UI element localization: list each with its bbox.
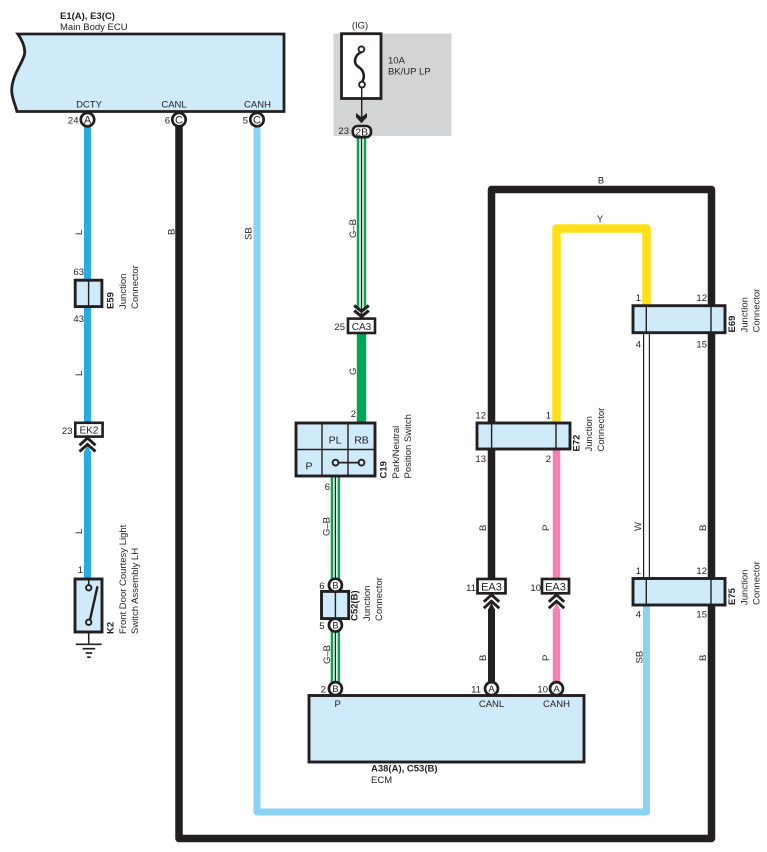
svg-text:CA3: CA3 xyxy=(352,322,372,333)
svg-text:2: 2 xyxy=(321,685,326,696)
svg-text:B: B xyxy=(332,684,338,695)
svg-text:12: 12 xyxy=(696,566,707,577)
svg-text:4: 4 xyxy=(636,340,641,351)
svg-text:B: B xyxy=(332,581,338,592)
svg-text:Connector: Connector xyxy=(752,561,763,605)
svg-text:6: 6 xyxy=(319,581,324,592)
svg-text:P: P xyxy=(305,461,312,473)
svg-text:Y: Y xyxy=(597,214,604,225)
svg-text:B: B xyxy=(332,621,338,632)
svg-text:SB: SB xyxy=(244,227,255,240)
svg-text:P: P xyxy=(541,655,552,661)
svg-text:(IG): (IG) xyxy=(352,21,368,32)
svg-text:6: 6 xyxy=(165,116,170,127)
svg-text:C19: C19 xyxy=(379,461,390,478)
svg-text:10: 10 xyxy=(530,583,541,594)
svg-text:W: W xyxy=(633,522,644,531)
svg-text:EA3: EA3 xyxy=(481,582,502,594)
svg-text:B: B xyxy=(698,655,709,661)
svg-text:L: L xyxy=(74,529,85,534)
svg-text:A: A xyxy=(553,684,560,695)
svg-text:13: 13 xyxy=(475,454,486,465)
svg-text:A: A xyxy=(488,684,495,695)
svg-text:CANH: CANH xyxy=(543,699,570,710)
svg-text:PL: PL xyxy=(329,435,342,447)
svg-text:24: 24 xyxy=(68,116,79,127)
svg-text:5: 5 xyxy=(319,621,324,632)
svg-text:Main Body ECU: Main Body ECU xyxy=(60,22,128,33)
svg-text:2: 2 xyxy=(351,409,356,420)
svg-text:1: 1 xyxy=(546,411,551,422)
svg-text:1: 1 xyxy=(78,565,83,576)
svg-text:C: C xyxy=(175,115,183,127)
svg-text:Connector: Connector xyxy=(752,289,763,333)
svg-text:E59: E59 xyxy=(106,292,117,309)
svg-text:43: 43 xyxy=(73,314,84,325)
svg-text:BK/UP LP: BK/UP LP xyxy=(388,67,431,78)
svg-text:G–B: G–B xyxy=(322,517,333,536)
svg-text:E75: E75 xyxy=(727,587,738,605)
svg-text:15: 15 xyxy=(696,340,707,351)
svg-text:11: 11 xyxy=(471,685,481,696)
svg-text:P: P xyxy=(335,699,341,710)
svg-text:Front Door Courtesy Light: Front Door Courtesy Light xyxy=(118,524,129,634)
svg-text:23: 23 xyxy=(62,426,73,437)
svg-text:B: B xyxy=(598,176,604,187)
svg-text:P: P xyxy=(541,525,552,531)
svg-text:C52(B): C52(B) xyxy=(350,590,361,621)
svg-text:L: L xyxy=(74,230,85,235)
svg-text:EA3: EA3 xyxy=(545,582,566,594)
svg-text:2: 2 xyxy=(546,454,551,465)
svg-text:4: 4 xyxy=(636,610,641,621)
svg-text:G: G xyxy=(348,368,359,375)
svg-text:10A: 10A xyxy=(388,56,406,67)
svg-text:Connector: Connector xyxy=(130,265,141,309)
svg-text:Connector: Connector xyxy=(596,408,607,452)
svg-text:CANL: CANL xyxy=(161,100,186,111)
svg-text:11: 11 xyxy=(466,583,476,594)
svg-text:C: C xyxy=(253,115,261,127)
svg-text:K2: K2 xyxy=(106,622,117,634)
svg-text:Junction: Junction xyxy=(740,297,751,332)
svg-text:10: 10 xyxy=(537,685,548,696)
svg-text:Junction: Junction xyxy=(584,416,595,451)
svg-text:B: B xyxy=(698,525,709,531)
svg-text:CANL: CANL xyxy=(479,699,504,710)
svg-text:E1(A), E3(C): E1(A), E3(C) xyxy=(60,11,115,22)
svg-text:A38(A), C53(B): A38(A), C53(B) xyxy=(371,764,438,775)
svg-text:A: A xyxy=(84,115,92,127)
svg-text:Switch Assembly LH: Switch Assembly LH xyxy=(130,548,141,634)
svg-text:5: 5 xyxy=(243,116,248,127)
svg-text:23: 23 xyxy=(338,126,349,137)
svg-text:CANH: CANH xyxy=(244,100,271,111)
svg-text:ECM: ECM xyxy=(371,775,392,786)
svg-text:Position Switch: Position Switch xyxy=(403,414,414,478)
svg-text:Junction: Junction xyxy=(118,274,129,309)
svg-text:12: 12 xyxy=(696,293,707,304)
svg-text:G–B: G–B xyxy=(348,219,359,238)
svg-text:G–B: G–B xyxy=(322,645,333,664)
svg-text:B: B xyxy=(478,655,489,661)
svg-text:Junction: Junction xyxy=(362,586,373,621)
svg-text:RB: RB xyxy=(354,435,369,447)
svg-text:Connector: Connector xyxy=(374,577,385,621)
svg-text:1: 1 xyxy=(636,566,641,577)
svg-text:EK2: EK2 xyxy=(80,426,99,437)
svg-text:25: 25 xyxy=(334,322,345,333)
svg-text:1: 1 xyxy=(636,293,641,304)
svg-text:L: L xyxy=(74,371,85,376)
svg-text:Park/Neutral: Park/Neutral xyxy=(391,426,402,479)
svg-text:SB: SB xyxy=(635,651,646,664)
svg-text:15: 15 xyxy=(696,610,707,621)
svg-text:63: 63 xyxy=(73,267,84,278)
svg-text:E72: E72 xyxy=(572,435,583,452)
svg-text:6: 6 xyxy=(325,482,330,493)
svg-text:12: 12 xyxy=(475,411,486,422)
svg-text:DCTY: DCTY xyxy=(76,100,103,111)
svg-text:B: B xyxy=(478,525,489,531)
svg-text:E69: E69 xyxy=(727,316,738,333)
svg-text:2B: 2B xyxy=(355,126,368,138)
svg-text:B: B xyxy=(167,229,178,235)
svg-text:Junction: Junction xyxy=(740,570,751,605)
